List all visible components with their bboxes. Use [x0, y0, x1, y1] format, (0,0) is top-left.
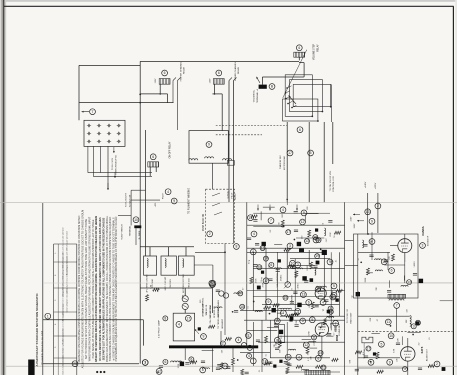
svg-text:270K: 270K [332, 260, 334, 265]
rail x324 [323, 252, 325, 302]
dense mid zone capacitor [328, 221, 332, 223]
svg-text:VOL MC-01: VOL MC-01 [206, 304, 208, 316]
b1 box [279, 325, 285, 343]
svg-text:17: 17 [286, 230, 290, 234]
svg-text:13: 13 [305, 239, 309, 243]
left mid zone part ref [163, 316, 168, 321]
svg-text:6.3V PILOT LAMP: 6.3V PILOT LAMP [157, 319, 160, 337]
dense bottom zone resistor [264, 362, 271, 365]
c1 cap [291, 267, 295, 269]
fold line at y=283 left part [43, 282, 247, 284]
b1 ref d [274, 337, 280, 343]
svg-text:8: 8 [235, 245, 237, 249]
b2 res b [316, 365, 323, 368]
bus wire x233b [233, 81, 235, 203]
dense mid zone part ref [316, 238, 321, 243]
svg-text:18: 18 [382, 260, 386, 264]
dense core zone capacitor [304, 281, 308, 283]
r transformer bar [388, 294, 406, 298]
svg-text:14: 14 [264, 257, 268, 261]
notes table right rule [76, 244, 78, 375]
dense mid zone junction dot [294, 239, 296, 241]
b1 ref e [303, 342, 309, 348]
mesh v x277 [276, 252, 278, 320]
svg-text:ON-OFF RELAY: ON-OFF RELAY [169, 141, 172, 158]
switch S1 junction 3 [330, 106, 332, 108]
below bar zone capacitor [159, 366, 163, 368]
notes block left boundary wire [42, 203, 44, 375]
crease row ref c [248, 215, 254, 221]
left mid zone resistor [208, 325, 215, 328]
svg-text:6: 6 [298, 46, 300, 50]
mid res 1 [281, 220, 284, 227]
sound if zone capacitor [384, 260, 388, 262]
svg-text:MOTOR BOOSTER: MOTOR BOOSTER [183, 274, 185, 293]
svg-text:SOUND DET: SOUND DET [339, 323, 341, 336]
svg-text:RELAY: RELAY [182, 66, 185, 74]
below bar zone coil [202, 368, 209, 369]
below bar coil [171, 361, 182, 362]
notes table divider 5 [54, 357, 77, 359]
sound if box wire b [387, 252, 389, 270]
mid ref 4 [287, 243, 293, 249]
switch S1 pointer line [283, 50, 307, 98]
c2 ref b [331, 283, 337, 289]
dense core zone coil [327, 317, 334, 318]
b1 ref a [274, 318, 280, 324]
svg-text:1 MEG: 1 MEG [298, 283, 300, 290]
sound if zone coil [375, 259, 382, 260]
dense bottom zone capacitor [327, 333, 331, 335]
r trans ref [394, 303, 400, 309]
r tie y265 [345, 264, 358, 266]
svg-text:ABSENT ON CENTERING INDICATE C: ABSENT ON CENTERING INDICATE CLOCKWISE R… [95, 216, 98, 362]
dense bottom zone capacitor [245, 372, 249, 374]
r bottom res [428, 365, 435, 368]
svg-text:4: 4 [178, 323, 180, 327]
c1 coil [315, 268, 316, 275]
dense blacksq extra 2 [316, 261, 320, 265]
c3 ref c [266, 299, 272, 305]
wire left long h y320 [43, 319, 144, 321]
r ref d [381, 259, 387, 265]
svg-text:TERMINAL: TERMINAL [128, 225, 131, 236]
choke L2 box [161, 256, 176, 275]
sound if zone part ref [407, 280, 412, 285]
sound if zone junction dot [360, 261, 362, 263]
wire v x143 lower [142, 320, 144, 346]
switch S1 loop box 4 [283, 99, 318, 121]
speaker plug black bar [134, 225, 141, 228]
c3 ref d [306, 300, 312, 306]
vol control ref 2 [185, 315, 191, 321]
dense core zone part ref [283, 295, 288, 300]
notes table top rule [54, 243, 77, 245]
relay K1 aux lead b [177, 81, 179, 103]
relay K1 ref [162, 70, 168, 76]
relay K1 aux lead ext [177, 103, 179, 130]
vol switch coil 1 [189, 159, 198, 160]
dense core zone capacitor [276, 270, 280, 272]
wire k3 loop bottom [262, 76, 304, 78]
tie y258 [290, 258, 330, 260]
terminal ref T [90, 109, 96, 115]
page border frame right [452, 6, 454, 375]
bar area ref2 [236, 337, 242, 343]
vol switch assembly box [189, 131, 228, 164]
mid ref 3 [313, 237, 319, 243]
dense mid zone wire stub [305, 213, 318, 215]
bs cap q6 [268, 362, 272, 364]
dense mid zone part ref [304, 239, 309, 244]
r coil blacksq [416, 321, 420, 325]
dense mid zone capacitor [255, 243, 259, 245]
switch S1 wiper arrow [289, 96, 297, 105]
audio out zone junction dot [390, 325, 392, 327]
c3 cap jumper [293, 292, 297, 294]
timer wire h y215 [118, 215, 131, 217]
bs rail x253 low [252, 322, 254, 366]
c3 ref b [331, 292, 337, 298]
left mid zone resistor [146, 295, 149, 302]
r wire tube av [407, 338, 409, 347]
svg-text:AUDIO OUT: AUDIO OUT [426, 348, 429, 361]
r ref top [365, 209, 371, 215]
notes table divider 1 [54, 261, 77, 263]
dense bottom zone part ref [311, 335, 316, 340]
r coil ref [385, 319, 391, 325]
notes table left rule [53, 244, 55, 375]
below bar zone capacitor [185, 363, 189, 365]
dense blacksq extra 3 [290, 317, 294, 321]
push back contact 2 [212, 203, 220, 206]
r bottom ref [434, 361, 440, 367]
r term lug box [362, 337, 373, 343]
c4 ref a [281, 310, 287, 316]
c1 ref c [295, 262, 301, 268]
svg-text:A PHOTOFACT STANDARD NOTATION: A PHOTOFACT STANDARD NOTATION SCHEMATIC [35, 293, 39, 367]
dense mid zone resistor [284, 248, 291, 251]
left mid zone resistor [153, 288, 160, 291]
B+ terminal block [259, 85, 267, 89]
svg-text:17: 17 [288, 151, 292, 155]
dense core zone capacitor [290, 302, 294, 304]
wire left h y363 [43, 363, 139, 365]
below bar res [190, 361, 197, 364]
B+ terminal lead [261, 77, 263, 85]
svg-text:8: 8 [276, 338, 278, 342]
choke L1 box [144, 256, 157, 275]
mid wire h y252 [195, 251, 225, 253]
r tie y240 [345, 239, 354, 241]
r dashed h line [358, 331, 453, 333]
vol switch coil 3 [223, 159, 232, 160]
mid blacksq 2 [297, 242, 301, 246]
r wire h y368 r [358, 367, 408, 369]
r ref i [387, 359, 393, 365]
rail x266 [265, 248, 267, 320]
below bar cap [201, 361, 205, 363]
left edge col zone part ref [240, 304, 245, 309]
r wire tube av2 [407, 361, 409, 375]
choke L3 lead [185, 247, 187, 256]
dense mid zone wire stub [304, 214, 306, 221]
svg-text:17: 17 [264, 279, 268, 283]
choke L2 lead [168, 247, 170, 256]
svg-text:270K: 270K [178, 363, 180, 368]
svg-text:2: 2 [209, 232, 211, 236]
bs tie y352 [240, 351, 270, 353]
c1 ref b [290, 260, 296, 266]
junction dot a [139, 102, 141, 104]
bs ref q1 [246, 333, 252, 339]
svg-text:6: 6 [211, 281, 213, 285]
svg-text:6.8K: 6.8K [182, 294, 184, 299]
c3 blacksq [272, 308, 276, 312]
svg-text:MOTOR LEAD: MOTOR LEAD [283, 156, 286, 170]
relay K2 wire corner v [221, 94, 223, 131]
tie y316 [280, 315, 345, 317]
c2 blacksq b [310, 278, 314, 282]
b2 ref c [315, 356, 321, 362]
notes table divider 2 [54, 287, 77, 289]
mesh v x287 low [286, 322, 288, 358]
svg-text:3: 3 [144, 361, 146, 365]
dense mid zone wire stub [260, 211, 262, 220]
svg-text:5: 5 [380, 342, 382, 346]
svg-text:7: 7 [252, 359, 254, 363]
socket tie y176 [94, 176, 152, 178]
svg-text:+265V: +265V [375, 182, 377, 189]
below bar ref 4 [222, 363, 228, 369]
svg-text:6: 6 [299, 128, 301, 132]
dense bottom zone wire stub [267, 326, 279, 328]
left mid zone coil [215, 307, 222, 308]
bar area v x247 [246, 336, 248, 345]
svg-text:6: 6 [152, 155, 154, 159]
svg-text:4: 4 [253, 232, 255, 236]
audio out zone resistor [377, 370, 384, 373]
svg-text:6: 6 [317, 357, 319, 361]
top junction ref [210, 282, 216, 288]
choke L3 winding [183, 259, 184, 268]
choke L2 winding [165, 259, 166, 268]
dense core zone junction dot [253, 301, 255, 303]
svg-text:TO T2 SEC OF: TO T2 SEC OF [347, 308, 349, 323]
choke feed bus [140, 246, 194, 248]
left edge col zone capacitor [234, 311, 238, 313]
below bar zone wire stub [202, 349, 214, 351]
bar area cap [216, 368, 220, 370]
left h ref 2 [142, 360, 148, 366]
tie y252 [247, 251, 324, 253]
svg-text:AMP LEAD: AMP LEAD [217, 306, 220, 317]
r box junction [367, 233, 369, 235]
r ref e [389, 268, 395, 274]
svg-text:6: 6 [164, 71, 166, 75]
b1 ref c [309, 317, 315, 323]
dense mid zone resistor [251, 215, 258, 218]
audio out zone junction dot [370, 361, 372, 363]
left edge shadow band [0, 0, 1, 375]
r ref g [388, 333, 394, 339]
dense core zone coil [291, 314, 298, 315]
c4 res 47k [311, 302, 314, 309]
r wire tube top [404, 234, 406, 239]
svg-text:6: 6 [218, 71, 220, 75]
wire relay K1 to bus [140, 93, 167, 95]
pilot lamp bulb 2 [182, 303, 188, 309]
switch S1 loop box 3 [293, 84, 331, 106]
choke out ref [210, 281, 216, 287]
dense core zone coil [296, 268, 303, 269]
bs tie y330 [247, 329, 277, 331]
r blacksq 1 [419, 279, 423, 283]
timer wire h y200 [131, 199, 160, 201]
relay K3 coil [294, 52, 305, 57]
bus wire x140 [139, 61, 141, 363]
svg-text:6mg: 6mg [249, 260, 251, 264]
relay K1 contact mark b [178, 78, 181, 81]
relay K1 coil lead [159, 84, 161, 94]
c2 coil [316, 286, 326, 287]
pilot lamp filament 2 [183, 305, 187, 307]
svg-text:RELAY: RELAY [237, 66, 240, 74]
mid ref 1 [300, 219, 306, 225]
svg-text:6BN8: 6BN8 [336, 334, 339, 341]
svg-text:4: 4 [298, 355, 300, 359]
fold line at y=202 [0, 201, 457, 203]
bs rail x270 low [269, 320, 271, 358]
bus wire x145 [145, 130, 147, 256]
b1 ref b [300, 318, 306, 324]
svg-text:TO 'ON' 150 OF VOL: TO 'ON' 150 OF VOL [330, 170, 332, 191]
left h ref 1 [72, 361, 78, 367]
dense core zone junction dot [269, 313, 271, 315]
dense mid zone capacitor [247, 238, 251, 240]
dense bottom zone resistor [241, 369, 244, 375]
svg-text:13: 13 [366, 210, 370, 214]
switch S1 below ref [297, 127, 303, 133]
b2 if transformer [305, 370, 330, 375]
pilot ref B [171, 198, 177, 204]
below bar zone resistor [220, 363, 223, 370]
bs cap q2 [256, 340, 260, 342]
relay K3 lead [298, 57, 300, 60]
dense bottom zone wire stub [310, 347, 318, 349]
rail x344 [344, 202, 346, 375]
dense bottom zone capacitor [286, 363, 290, 365]
mesh h y268 [253, 267, 344, 269]
svg-text:6: 6 [308, 301, 310, 305]
left col ref [234, 244, 240, 250]
r wire x396 v [396, 308, 398, 331]
switch S1 junction 1 [311, 115, 313, 117]
B+ terminal ref [269, 84, 275, 90]
b2 cap b [287, 364, 291, 366]
sound if zone wire stub [388, 280, 390, 287]
r low cap2 [396, 343, 400, 345]
notes bullet 2 [100, 371, 102, 373]
mid lamp circle b [223, 293, 228, 298]
svg-text:TIMER (SHOE) PT D: TIMER (SHOE) PT D [116, 155, 118, 175]
sound if zone coil [401, 285, 408, 286]
on-off relay lead b [155, 167, 157, 172]
below bar zone junction dot [157, 371, 159, 373]
switch S1 output drop 4 [332, 122, 334, 164]
dense core zone resistor [288, 265, 295, 268]
svg-text:19: 19 [315, 254, 319, 258]
svg-text:10000: 10000 [307, 264, 309, 270]
audio out zone wire stub [401, 336, 403, 345]
svg-text:MC-01 LEAD: MC-01 LEAD [209, 304, 212, 317]
wire drop label arrow [114, 172, 116, 178]
sound if tube lead [404, 253, 406, 283]
notes bullet 1 [96, 371, 98, 373]
r wire y358 b [358, 357, 400, 359]
rail x339 [339, 252, 341, 316]
svg-text:4: 4 [317, 288, 319, 292]
pilot lamp filament 1 [183, 298, 187, 300]
sound if zone wire stub [403, 275, 405, 280]
crease arrow 3 [296, 205, 298, 211]
dense mid zone part ref [313, 235, 318, 240]
relay K1 aux lead a [172, 81, 174, 103]
chassis ground bus bar [169, 345, 258, 348]
below bar wire 4 [232, 365, 234, 372]
tp blacksq [356, 292, 360, 296]
c1 blacksq top [322, 250, 327, 255]
c4 ref b [295, 309, 301, 315]
audio out zone part ref [402, 367, 407, 372]
relay K1 coil [159, 79, 170, 85]
svg-text:ORANGE AMP: ORANGE AMP [202, 302, 205, 317]
choke L3 box [178, 256, 194, 275]
crease arrow 1 [257, 205, 259, 211]
svg-text:1: 1 [47, 314, 49, 318]
dense core zone wire stub [277, 312, 284, 314]
interlock socket pins [87, 124, 121, 144]
socket tie y172 [88, 172, 152, 174]
bs ref q4 [250, 358, 256, 364]
dense core zone coil [274, 268, 281, 269]
svg-text:9: 9 [311, 318, 313, 322]
dense core zone capacitor [268, 279, 272, 281]
svg-text:120V: 120V [155, 78, 157, 83]
r ref b [375, 203, 381, 209]
svg-text:PILOT: PILOT [163, 192, 165, 199]
svg-text:ITEM NUMBERS IN SQUARES REFER: ITEM NUMBERS IN SQUARES REFER TO PARTS L… [115, 216, 118, 361]
left wire ref [45, 313, 51, 319]
b1 tube 6be6 [315, 323, 328, 336]
crease arrow 2 [269, 205, 271, 211]
dense bottom zone resistor [286, 367, 289, 374]
notes bullet 3 [103, 371, 105, 373]
dense mid zone junction dot [320, 249, 322, 251]
svg-text:1: 1 [417, 321, 419, 325]
svg-text:7: 7 [396, 304, 398, 308]
socket drop short b [93, 146, 95, 176]
c3 sq [335, 298, 338, 301]
r dashes x357 [357, 234, 359, 294]
r ref f [379, 341, 385, 347]
relay K3 ref [296, 45, 302, 51]
junction dot b [139, 94, 141, 96]
svg-text:18: 18 [257, 265, 261, 269]
mesh h y290 [247, 289, 345, 291]
svg-text:4: 4 [167, 190, 169, 194]
dense core zone resistor [336, 289, 343, 292]
